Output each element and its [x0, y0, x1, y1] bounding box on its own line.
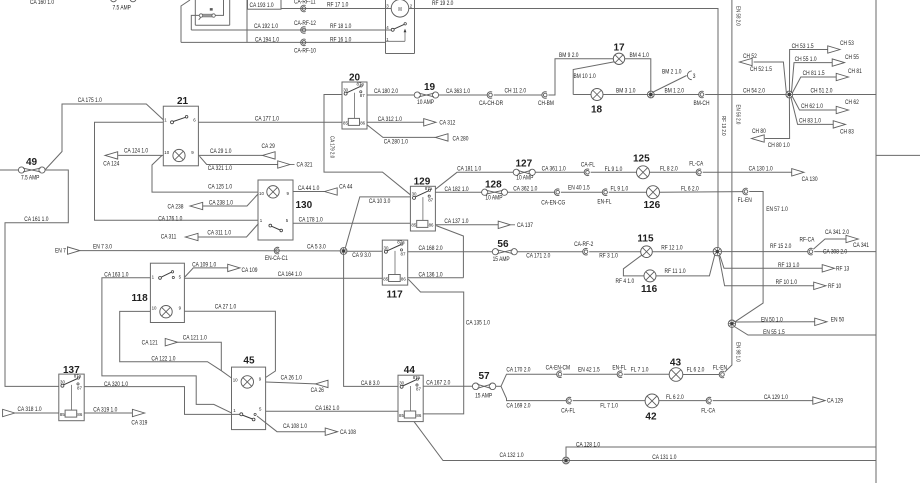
svg-text:CA 177 1.0: CA 177 1.0: [255, 116, 279, 123]
wire CA 8: [344, 254, 398, 386]
wire CA 128: [566, 447, 876, 457]
label CA 311: [161, 234, 177, 241]
label CH 53: [840, 41, 854, 48]
connector EN-FL upper: [602, 189, 607, 196]
wire CA 321: [200, 156, 278, 164]
wire CH 81: [792, 77, 836, 93]
label 127: [516, 158, 533, 169]
svg-text:CA 160 1.0: CA 160 1.0: [30, 0, 54, 6]
pin 10 of 118: [152, 306, 157, 311]
svg-text:CA 121: CA 121: [142, 340, 158, 347]
pin 10 of 45: [233, 377, 238, 382]
label FL 8 2.0: [660, 166, 678, 173]
label CH 83 1.0: [799, 118, 821, 125]
wire CA 176: [95, 122, 259, 220]
pin 6 of 21: [193, 117, 196, 122]
svg-text:56: 56: [497, 239, 509, 250]
label CA 121 1.0: [183, 335, 207, 342]
svg-text:CA 175 1.0: CA 175 1.0: [78, 98, 102, 105]
label 56: [497, 239, 509, 250]
svg-text:CH 53: CH 53: [840, 41, 854, 48]
label CA 5 3.0: [307, 244, 326, 251]
svg-text:CA 341 2.0: CA 341 2.0: [825, 229, 849, 236]
svg-text:RF 10 1.0: RF 10 1.0: [776, 280, 797, 287]
svg-text:87: 87: [77, 385, 82, 390]
label CA 29: [262, 144, 275, 151]
svg-text:10 AMP: 10 AMP: [485, 195, 502, 202]
label CA 131 1.0: [652, 455, 676, 462]
svg-text:CA 341: CA 341: [853, 243, 869, 250]
junction RF node: [713, 247, 721, 255]
svg-text:87: 87: [401, 251, 406, 256]
svg-text:FL-CA: FL-CA: [701, 408, 715, 415]
svg-text:CA 161 1.0: CA 161 1.0: [24, 216, 48, 223]
label 125: [633, 154, 650, 165]
wire CA 161 trunk: [5, 170, 68, 386]
label 137: [63, 365, 80, 376]
svg-text:RF 12 1.0: RF 12 1.0: [661, 245, 682, 252]
connector EN-FL lower: [617, 371, 622, 378]
svg-text:CA-RF-12: CA-RF-12: [294, 20, 316, 27]
label CA 179 2.0 vertical: [328, 136, 335, 158]
label CA 180 2.0: [374, 89, 398, 96]
svg-text:FL-EN: FL-EN: [713, 365, 727, 372]
label CA 318 1.0: [18, 407, 42, 414]
label RF 18 1.0: [330, 24, 351, 31]
svg-text:RF-CA: RF-CA: [800, 237, 815, 244]
svg-text:FL-CA: FL-CA: [689, 161, 703, 168]
label CA 108 1.0: [283, 424, 307, 431]
wire CA 181: [435, 172, 513, 189]
svg-text:85: 85: [383, 277, 388, 282]
wire CA 167: [423, 385, 472, 387]
svg-text:85: 85: [411, 222, 416, 227]
wire into fuse 49: [0, 169, 19, 171]
arrow CA 321: [278, 161, 295, 168]
svg-text:129: 129: [414, 176, 431, 187]
svg-text:CA-CH-DR: CA-CH-DR: [479, 101, 503, 108]
arrow CH 52: [739, 58, 752, 65]
svg-text:CA-RF-2: CA-RF-2: [574, 242, 593, 249]
wire RF 15: [722, 251, 808, 253]
wire split after 57: [496, 385, 501, 387]
svg-text:CA 319 1.0: CA 319 1.0: [93, 407, 117, 414]
svg-text:FL 9 1.0: FL 9 1.0: [610, 186, 628, 193]
wire FL 9 lower: [609, 191, 647, 193]
label FL-EN upper: [738, 197, 752, 204]
wire CH 52: [754, 62, 787, 92]
arrow CA 44: [325, 188, 338, 195]
label BM 1 2.0: [664, 88, 684, 95]
pin 5 of 130: [286, 218, 289, 223]
label 117: [387, 289, 404, 300]
label CA 124 1.0: [124, 148, 148, 155]
svg-text:CA 168 2.0: CA 168 2.0: [418, 246, 442, 253]
pin 1 of 21: [164, 117, 167, 122]
label RF-CA: [800, 237, 815, 244]
svg-text:30: 30: [384, 245, 389, 250]
lamp 42: [645, 394, 659, 408]
svg-text:126: 126: [644, 200, 661, 211]
fuse 19: [414, 92, 438, 98]
wire CA 362: [508, 191, 555, 193]
label CA 9 3.0: [352, 252, 371, 259]
pin 5 of 118: [179, 275, 182, 280]
wire CA 109: [185, 268, 228, 277]
svg-text:CA 131 1.0: CA 131 1.0: [652, 455, 676, 462]
label CA 160 1.0 (cut): [30, 0, 54, 6]
svg-text:FL 8 2.0: FL 8 2.0: [660, 166, 678, 173]
label CA 122 1.0: [151, 356, 175, 363]
svg-text:BM 3 1.0: BM 3 1.0: [616, 88, 636, 95]
svg-text:CA-FL: CA-FL: [581, 162, 595, 169]
wire CA 341: [813, 239, 846, 249]
label CA 312 1.0: [378, 116, 402, 123]
wire CA 178: [293, 222, 410, 224]
label CH 11 2.0: [504, 88, 526, 95]
svg-text:30: 30: [343, 87, 348, 92]
arrow EN 50: [815, 318, 827, 325]
label FL 7 1.0 upper: [631, 367, 649, 374]
label CA 135 1.0: [466, 320, 490, 327]
svg-text:CA 311 1.0: CA 311 1.0: [207, 230, 231, 237]
wire FL 6 lamp43: [683, 374, 720, 376]
wire CH 80: [765, 98, 790, 139]
wire RF 10: [719, 256, 814, 286]
label CA 26 1.0: [281, 375, 302, 382]
label CA 109: [242, 268, 258, 275]
wire CA 129: [713, 400, 813, 402]
junction bottom: [563, 457, 570, 464]
arrow CA 26: [315, 380, 328, 387]
svg-text:127: 127: [516, 158, 533, 169]
wire CA 168: [408, 251, 493, 253]
svg-text:BM-CH: BM-CH: [694, 101, 710, 108]
pin 4: [386, 25, 389, 30]
pin 9 of 21: [191, 150, 194, 155]
svg-text:CA 321: CA 321: [296, 162, 312, 169]
label CH 54 2.0: [743, 88, 765, 95]
connector FL-CA lower: [706, 397, 711, 404]
svg-text:19: 19: [424, 82, 436, 93]
wire CA 238: [203, 194, 259, 207]
svg-text:87: 87: [416, 386, 421, 391]
arrow CH 53: [828, 46, 840, 53]
label CA 108: [340, 429, 356, 436]
svg-text:FL 6 2.0: FL 6 2.0: [681, 186, 699, 193]
label 116: [641, 284, 658, 295]
label CA-RF-10: [294, 48, 316, 55]
wire CA 182: [435, 191, 481, 193]
label CA 168 2.0: [418, 246, 442, 253]
connector CA-RF-10: [301, 39, 306, 46]
label CA 321 1.0: [208, 166, 232, 173]
relay 117: [382, 240, 407, 285]
pin 5 of 45: [259, 407, 262, 412]
wire CA 163: [102, 278, 232, 413]
connector CH-BM: [542, 92, 547, 99]
label BM 4 1.0: [630, 53, 650, 60]
label RF 19 2.0 vertical: [720, 116, 727, 136]
label CA 169 2.0: [506, 403, 530, 410]
svg-text:10: 10: [152, 306, 157, 311]
wire FL 7 lower: [573, 400, 645, 402]
wire CA 125: [152, 155, 258, 192]
connector FL-EN lower: [719, 371, 724, 378]
svg-text:20: 20: [349, 73, 361, 84]
wire CH 51: [793, 94, 876, 96]
svg-text:CA 44: CA 44: [339, 184, 352, 191]
relay 44: [398, 375, 423, 422]
label CA 26: [311, 388, 324, 395]
svg-text:CA 169 2.0: CA 169 2.0: [506, 403, 530, 410]
svg-text:CA 109 1.0: CA 109 1.0: [192, 262, 216, 269]
label CH 55 1.0: [795, 56, 817, 63]
label CA 341: [853, 243, 869, 250]
wire CH 54: [705, 94, 786, 96]
junction EN node: [728, 320, 735, 327]
label CA 312: [439, 120, 455, 127]
svg-text:CA 5 3.0: CA 5 3.0: [307, 244, 326, 251]
arrow CA 108: [325, 428, 337, 435]
svg-text:RF 19 2.0: RF 19 2.0: [720, 116, 727, 136]
svg-text:CH 80 1.0: CH 80 1.0: [768, 143, 790, 150]
connector CA-FL: [584, 169, 589, 176]
label CA 164 1.0: [278, 272, 302, 279]
label CH 62: [845, 100, 859, 107]
svg-text:30: 30: [60, 379, 65, 384]
switch box 45: [232, 367, 266, 430]
label CH 52: [743, 54, 757, 61]
svg-text:117: 117: [387, 289, 404, 300]
boxed label CA 193 1.0: [248, 0, 282, 9]
label CH 52 1.5: [750, 66, 772, 73]
wire to lamp 18: [573, 94, 591, 96]
arrow CA 121: [165, 339, 177, 346]
label 45: [243, 356, 255, 367]
switch blade 130: [269, 224, 283, 232]
arrow CA 280: [435, 134, 448, 141]
svg-text:42: 42: [645, 411, 657, 422]
label 128: [485, 179, 502, 190]
svg-text:CH 81 1.5: CH 81 1.5: [803, 71, 825, 78]
svg-text:CA 180 2.0: CA 180 2.0: [374, 89, 398, 96]
svg-text:CA 26 1.0: CA 26 1.0: [281, 375, 302, 382]
svg-text:CA 361 1.0: CA 361 1.0: [542, 166, 566, 173]
label CA 321: [296, 162, 312, 169]
label RF 13 1.0: [778, 262, 799, 269]
label 129: [414, 176, 431, 187]
label CA 194 1.0: [255, 37, 279, 44]
label BM 9 2.0: [559, 53, 579, 60]
svg-text:CH-BM: CH-BM: [538, 101, 554, 108]
label EN 50: [831, 317, 845, 324]
switch box 21: [163, 106, 198, 166]
label CA 161 1.0: [24, 216, 48, 223]
label CA 341 2.0: [825, 229, 849, 236]
switch blade 21: [171, 116, 188, 124]
motor box: [386, 0, 415, 54]
wire CA 132: [414, 422, 563, 461]
svg-text:57: 57: [479, 371, 491, 382]
relay 137: [59, 374, 84, 421]
wire EN 7 / CA 5: [80, 250, 340, 252]
wire BM 10: [573, 62, 614, 95]
svg-text:EN 58 2.0: EN 58 2.0: [734, 6, 741, 26]
svg-text:CA 318 1.0: CA 318 1.0: [18, 407, 42, 414]
svg-text:CA 137: CA 137: [517, 223, 533, 230]
svg-text:CA 128 1.0: CA 128 1.0: [576, 442, 600, 449]
wire CA 164: [184, 277, 382, 279]
label EN 98 1.0 vertical: [734, 342, 741, 362]
wire CA 363: [439, 94, 488, 96]
label RF 13: [836, 266, 849, 273]
label CA-FL lower: [561, 408, 575, 415]
fuse 127: [513, 169, 535, 175]
label EN-CA-C1: [265, 256, 288, 263]
wire CA 361: [535, 171, 584, 173]
label CA 182 1.0: [444, 186, 468, 193]
label BM 10 1.0: [574, 74, 596, 81]
wire CH 11: [494, 94, 542, 96]
label CA 362 1.0: [513, 186, 537, 193]
relay 20: [342, 82, 367, 129]
arrow CA 109: [228, 264, 240, 271]
svg-text:CH 83: CH 83: [840, 129, 854, 136]
wire EN 57: [735, 192, 763, 322]
wire CA 192: [191, 29, 391, 31]
svg-text:RF 3 1.0: RF 3 1.0: [599, 253, 618, 260]
svg-text:CA 178 1.0: CA 178 1.0: [299, 217, 323, 224]
svg-text:7.5 AMP: 7.5 AMP: [21, 175, 40, 182]
label RF 3 1.0: [599, 253, 618, 260]
svg-text:CA 108 1.0: CA 108 1.0: [283, 424, 307, 431]
svg-text:BM 9 2.0: BM 9 2.0: [559, 53, 579, 60]
wire CA 10: [345, 197, 410, 248]
pin 3: [386, 3, 389, 8]
label EN 55 1.5: [763, 330, 785, 337]
label CA 308 2.0: [823, 249, 847, 256]
wire CA 108: [257, 416, 325, 432]
svg-text:CA 122 1.0: CA 122 1.0: [151, 356, 175, 363]
wire CA 162: [266, 410, 398, 412]
inner box with fuse element: [191, 0, 223, 30]
label CA 136 1.0: [418, 272, 442, 279]
svg-text:RF 13: RF 13: [836, 266, 849, 273]
label CA 121: [142, 340, 158, 347]
wire RF 3: [589, 251, 641, 253]
svg-text:15 AMP: 15 AMP: [493, 257, 510, 264]
label 115: [637, 234, 654, 245]
label 15 AMP 56: [493, 257, 510, 264]
svg-text:EN-FL: EN-FL: [612, 365, 626, 372]
svg-text:17: 17: [614, 43, 626, 54]
svg-text:RF 19 2.0: RF 19 2.0: [432, 1, 453, 8]
svg-text:RF 18 1.0: RF 18 1.0: [330, 24, 351, 31]
svg-text:CH 83 1.0: CH 83 1.0: [799, 118, 821, 125]
label CA 125 1.0: [208, 184, 232, 191]
label CH 51 2.0: [810, 88, 832, 95]
label 10 AMP 128: [485, 195, 502, 202]
label CA-EN-CM: [546, 365, 571, 372]
svg-text:CA 362 1.0: CA 362 1.0: [513, 186, 537, 193]
label CA 44: [339, 184, 352, 191]
svg-text:CH 51 2.0: CH 51 2.0: [810, 88, 832, 95]
connector EN-CA-C1: [274, 247, 279, 254]
svg-text:86: 86: [416, 413, 421, 418]
svg-text:CA 164 1.0: CA 164 1.0: [278, 272, 302, 279]
svg-text:CH 52: CH 52: [743, 54, 757, 61]
wire CA 180: [367, 94, 414, 96]
svg-text:EN 98 1.0: EN 98 1.0: [734, 342, 741, 362]
label RF 12 1.0: [661, 245, 682, 252]
svg-text:CA 108: CA 108: [340, 429, 356, 436]
label CA 29 1.0: [210, 149, 231, 156]
label CH 83: [840, 129, 854, 136]
arrow CH 55: [832, 59, 844, 66]
wire EN 55: [734, 327, 876, 336]
label EN 42 1.5: [578, 367, 600, 374]
label EN-FL lower: [612, 365, 626, 372]
svg-text:RF 17 1.0: RF 17 1.0: [327, 2, 348, 9]
label CA 176 1.0: [158, 216, 182, 223]
label CA 238 1.0: [209, 200, 233, 207]
wire CH 55: [792, 63, 833, 92]
label FL 6 2.0 43: [687, 367, 705, 374]
svg-text:30: 30: [412, 192, 417, 197]
svg-text:CA 238 1.0: CA 238 1.0: [209, 200, 233, 207]
svg-text:RF 15 2.0: RF 15 2.0: [770, 244, 791, 251]
label CA 167 2.0: [426, 380, 450, 387]
svg-text:CA 163 1.0: CA 163 1.0: [104, 272, 128, 279]
svg-text:CA 137 1.0: CA 137 1.0: [444, 219, 468, 226]
svg-text:118: 118: [132, 293, 149, 304]
connector CA-RF-11: [301, 5, 306, 12]
label CA 163 1.0: [104, 272, 128, 279]
svg-text:116: 116: [641, 284, 658, 295]
lamp 115: [641, 246, 653, 258]
svg-text:CA 124: CA 124: [103, 161, 119, 168]
wire CA 308: [814, 251, 876, 253]
svg-text:EN 7 3.0: EN 7 3.0: [93, 244, 112, 251]
svg-text:CA 311: CA 311: [161, 234, 177, 241]
fuse (cut at top) above 7.5 AMP: [111, 0, 137, 2]
arrow CA 341: [846, 235, 858, 242]
wire CA 320: [84, 387, 239, 415]
svg-text:EN 55 1.5: EN 55 1.5: [763, 330, 785, 337]
arrow CA 29: [262, 152, 275, 159]
wire CA 280: [367, 125, 435, 138]
lamp 17: [613, 53, 624, 64]
pin 2: [410, 3, 413, 8]
label CA 170 2.0: [506, 367, 530, 374]
label CA 137: [517, 223, 533, 230]
svg-text:FL 6 2.0: FL 6 2.0: [666, 395, 684, 402]
svg-text:CH 62 1.0: CH 62 1.0: [801, 104, 823, 111]
svg-text:CA 125 1.0: CA 125 1.0: [208, 184, 232, 191]
label 18: [591, 104, 603, 115]
wire EN 42: [563, 373, 617, 375]
svg-text:CA 136 1.0: CA 136 1.0: [418, 272, 442, 279]
svg-text:10: 10: [233, 377, 238, 382]
svg-text:44: 44: [404, 365, 416, 376]
motor M symbol: [391, 0, 409, 17]
svg-text:CA 308 2.0: CA 308 2.0: [823, 249, 847, 256]
arrow RF 13: [822, 265, 834, 272]
svg-text:EN 42 1.5: EN 42 1.5: [578, 367, 600, 374]
label CH 62 1.0: [801, 104, 823, 111]
wire CA 194: [181, 41, 386, 43]
